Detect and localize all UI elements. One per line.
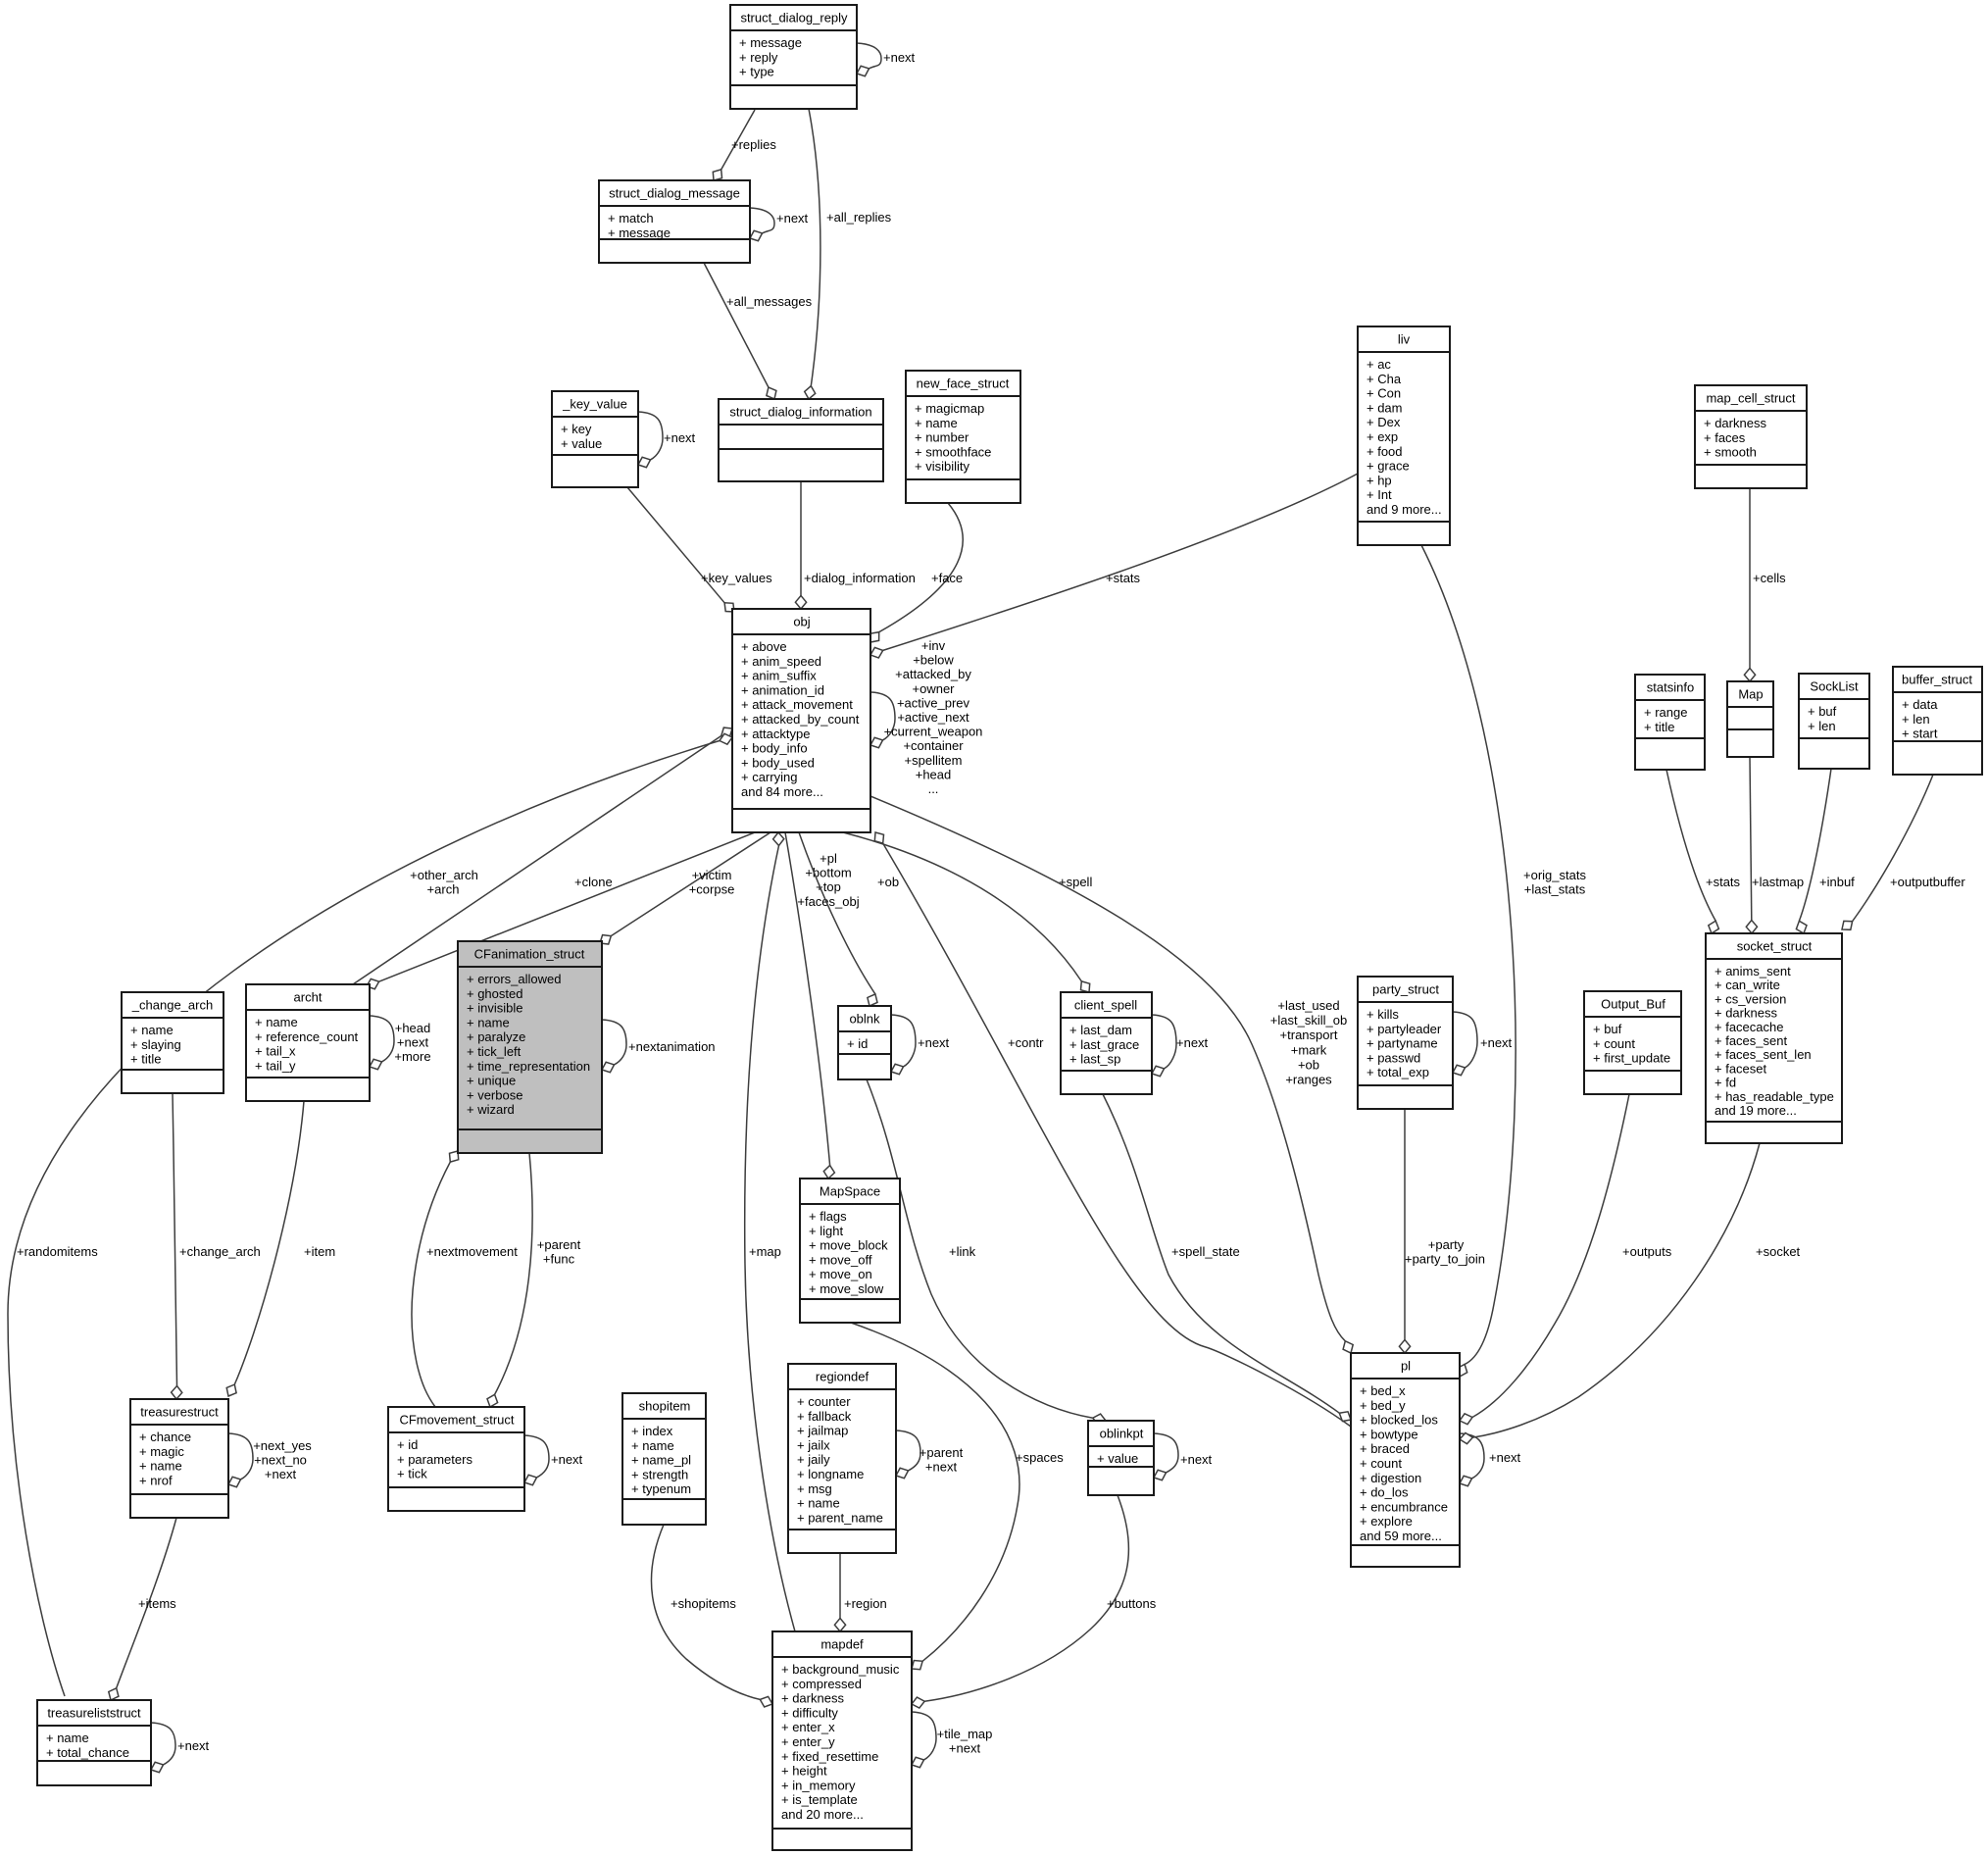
svg-text:+ difficulty: + difficulty bbox=[781, 1705, 838, 1720]
svg-text:+all_messages: +all_messages bbox=[726, 294, 813, 309]
edge socket_struct->pl +socket bbox=[1460, 1143, 1801, 1444]
edge obj->client_spell +spell bbox=[843, 832, 1092, 992]
svg-text:+ darkness: + darkness bbox=[1715, 1006, 1777, 1021]
class Map bbox=[1727, 681, 1773, 757]
svg-text:+ body_info: + body_info bbox=[741, 741, 808, 756]
svg-text:+ range: + range bbox=[1644, 705, 1687, 720]
self-loop party_struct +next bbox=[1453, 1012, 1513, 1076]
svg-text:+corpse: +corpse bbox=[689, 882, 735, 897]
svg-text:+ tail_x: + tail_x bbox=[255, 1044, 296, 1059]
self-loop treasurestruct +next_yes+next_no+next bbox=[228, 1433, 312, 1487]
svg-text:+next: +next bbox=[883, 50, 916, 65]
svg-text:+items: +items bbox=[138, 1596, 176, 1611]
class regiondef bbox=[788, 1364, 896, 1553]
svg-text:+victim: +victim bbox=[692, 868, 732, 882]
svg-text:+contr: +contr bbox=[1008, 1035, 1044, 1050]
svg-text:+ match: + match bbox=[608, 211, 654, 226]
svg-text:+ carrying: + carrying bbox=[741, 770, 797, 784]
svg-text:+ move_slow: + move_slow bbox=[809, 1281, 884, 1296]
svg-text:+head: +head bbox=[916, 767, 952, 781]
svg-text:+ ac: + ac bbox=[1367, 357, 1391, 372]
svg-text:+ counter: + counter bbox=[797, 1394, 851, 1409]
svg-text:+ name: + name bbox=[255, 1015, 298, 1029]
svg-text:+current_weapon: +current_weapon bbox=[884, 725, 983, 739]
svg-text:+randomitems: +randomitems bbox=[17, 1244, 98, 1259]
svg-text:+ move_block: + move_block bbox=[809, 1238, 888, 1253]
svg-text:+outputbuffer: +outputbuffer bbox=[1890, 875, 1965, 889]
svg-text:+ faces_sent: + faces_sent bbox=[1715, 1033, 1787, 1048]
svg-text:+arch: +arch bbox=[427, 882, 460, 897]
svg-text:+next: +next bbox=[918, 1035, 950, 1050]
svg-text:+ grace: + grace bbox=[1367, 459, 1410, 474]
svg-text:+ last_sp: + last_sp bbox=[1069, 1052, 1120, 1067]
svg-text:regiondef: regiondef bbox=[816, 1370, 870, 1384]
svg-text:...: ... bbox=[928, 781, 939, 796]
svg-text:obj: obj bbox=[793, 615, 810, 629]
svg-text:+next: +next bbox=[949, 1741, 981, 1756]
svg-text:+orig_stats: +orig_stats bbox=[1523, 868, 1586, 882]
svg-text:and 9 more...: and 9 more... bbox=[1367, 502, 1442, 517]
svg-text:+ above: + above bbox=[741, 639, 787, 654]
svg-text:SockList: SockList bbox=[1810, 679, 1859, 694]
svg-text:+ buf: + buf bbox=[1593, 1022, 1622, 1036]
svg-text:+ can_write: + can_write bbox=[1715, 978, 1780, 992]
svg-text:+stats: +stats bbox=[1106, 571, 1141, 585]
self-loop archt +head+next+more bbox=[370, 1016, 431, 1070]
svg-text:+stats: +stats bbox=[1706, 875, 1741, 889]
svg-text:+ parent_name: + parent_name bbox=[797, 1510, 883, 1525]
edge party_struct->pl +party +party_to_join bbox=[1399, 1109, 1485, 1353]
svg-text:MapSpace: MapSpace bbox=[820, 1184, 880, 1199]
svg-text:+ dam: + dam bbox=[1367, 400, 1403, 415]
class map_cell_struct bbox=[1695, 385, 1807, 488]
svg-text:+spellitem: +spellitem bbox=[905, 753, 963, 768]
svg-text:+mark: +mark bbox=[1291, 1042, 1327, 1057]
svg-text:party_struct: party_struct bbox=[1372, 982, 1439, 997]
svg-text:+pl: +pl bbox=[820, 851, 837, 866]
svg-text:+ magic: + magic bbox=[139, 1444, 184, 1459]
edge obj->pl +last_used +last_skill_ob +transport +mark +ob +ranges bbox=[870, 796, 1353, 1353]
class shopitem bbox=[622, 1393, 706, 1525]
svg-text:+ total_chance: + total_chance bbox=[46, 1745, 129, 1760]
svg-text:Map: Map bbox=[1738, 687, 1763, 702]
class struct_dialog_information bbox=[719, 399, 883, 481]
svg-text:+ jailmap: + jailmap bbox=[797, 1424, 848, 1438]
svg-text:+other_arch: +other_arch bbox=[410, 868, 478, 882]
svg-text:+ explore: + explore bbox=[1360, 1514, 1413, 1529]
svg-text:+party: +party bbox=[1428, 1237, 1465, 1252]
svg-text:+ name: + name bbox=[915, 416, 958, 430]
self-loop CFanimation_struct +nextanimation bbox=[602, 1020, 716, 1073]
class obj bbox=[732, 609, 870, 832]
svg-text:+ anims_sent: + anims_sent bbox=[1715, 964, 1791, 978]
svg-text:+ has_readable_type: + has_readable_type bbox=[1715, 1089, 1834, 1104]
svg-text:+ bed_x: + bed_x bbox=[1360, 1383, 1406, 1398]
edge oblnk->oblinkpt +link bbox=[867, 1079, 1106, 1425]
svg-text:+func: +func bbox=[543, 1252, 575, 1267]
svg-text:+key_values: +key_values bbox=[701, 571, 772, 585]
svg-text:+ encumbrance: + encumbrance bbox=[1360, 1499, 1448, 1514]
svg-text:+ nrof: + nrof bbox=[139, 1473, 173, 1487]
svg-text:+active_next: +active_next bbox=[897, 710, 969, 725]
self-loop oblnk +next bbox=[891, 1015, 950, 1075]
svg-text:CFanimation_struct: CFanimation_struct bbox=[474, 947, 585, 962]
svg-text:+ data: + data bbox=[1902, 697, 1938, 712]
svg-text:+map: +map bbox=[749, 1244, 781, 1259]
svg-text:+change_arch: +change_arch bbox=[179, 1244, 261, 1259]
svg-text:+last_stats: +last_stats bbox=[1524, 882, 1586, 897]
svg-text:+ob: +ob bbox=[877, 875, 899, 889]
class _change_arch bbox=[122, 992, 224, 1093]
svg-text:+ title: + title bbox=[130, 1052, 161, 1067]
svg-text:+ paralyze: + paralyze bbox=[467, 1029, 525, 1044]
edge Output_Buf->pl +outputs bbox=[1460, 1094, 1672, 1425]
svg-text:+next: +next bbox=[925, 1460, 958, 1475]
svg-text:+ do_los: + do_los bbox=[1360, 1485, 1409, 1500]
svg-text:+ unique: + unique bbox=[467, 1074, 516, 1088]
svg-text:buffer_struct: buffer_struct bbox=[1902, 673, 1972, 687]
class buffer_struct bbox=[1893, 667, 1982, 775]
class liv bbox=[1358, 326, 1450, 545]
svg-text:+ food: + food bbox=[1367, 444, 1403, 459]
svg-text:+ time_representation: + time_representation bbox=[467, 1059, 590, 1074]
self-loop struct_dialog_message +next bbox=[750, 208, 809, 241]
svg-text:+ count: + count bbox=[1360, 1456, 1402, 1471]
svg-text:+ jailx: + jailx bbox=[797, 1437, 830, 1452]
svg-text:+spell_state: +spell_state bbox=[1171, 1244, 1240, 1259]
svg-text:+head: +head bbox=[395, 1021, 431, 1035]
self-loop oblinkpt +next bbox=[1154, 1433, 1213, 1480]
svg-text:+outputs: +outputs bbox=[1622, 1244, 1672, 1259]
svg-text:+ wizard: + wizard bbox=[467, 1102, 515, 1117]
edge archt->treasurestruct +item bbox=[226, 1101, 335, 1396]
self-loop client_spell +next bbox=[1152, 1015, 1209, 1077]
svg-text:+ Con: + Con bbox=[1367, 386, 1401, 401]
svg-text:+ enter_x: + enter_x bbox=[781, 1720, 835, 1734]
svg-text:+below: +below bbox=[913, 653, 954, 668]
svg-text:+dialog_information: +dialog_information bbox=[804, 571, 916, 585]
class SockList bbox=[1799, 674, 1869, 769]
svg-text:+next: +next bbox=[265, 1467, 297, 1481]
svg-text:+ light: + light bbox=[809, 1224, 843, 1238]
svg-text:+ faceset: + faceset bbox=[1715, 1061, 1767, 1076]
svg-text:+last_used: +last_used bbox=[1277, 998, 1339, 1013]
svg-text:+ key: + key bbox=[561, 422, 592, 436]
svg-text:+buttons: +buttons bbox=[1107, 1596, 1157, 1611]
svg-text:+ message: + message bbox=[608, 226, 671, 240]
svg-text:+ height: + height bbox=[781, 1764, 827, 1779]
class MapSpace bbox=[800, 1179, 900, 1323]
svg-text:+owner: +owner bbox=[913, 681, 956, 696]
svg-text:+face: +face bbox=[931, 571, 963, 585]
svg-text:+ buf: + buf bbox=[1808, 704, 1837, 719]
svg-text:+ in_memory: + in_memory bbox=[781, 1778, 856, 1792]
svg-text:+ digestion: + digestion bbox=[1360, 1471, 1421, 1485]
svg-text:+last_skill_ob: +last_skill_ob bbox=[1270, 1013, 1347, 1028]
self-loop mapdef +tile_map+next bbox=[912, 1712, 992, 1768]
svg-text:+cells: +cells bbox=[1753, 571, 1786, 585]
svg-text:+ darkness: + darkness bbox=[781, 1691, 844, 1706]
svg-text:+ typenum: + typenum bbox=[631, 1481, 691, 1496]
edge new_face_struct->obj +face bbox=[870, 503, 963, 642]
svg-text:+spell: +spell bbox=[1059, 875, 1092, 889]
edge MapSpace->mapdef +spaces bbox=[851, 1323, 1064, 1670]
class struct_dialog_message bbox=[599, 180, 750, 263]
class party_struct bbox=[1358, 977, 1453, 1109]
svg-text:+ message: + message bbox=[739, 35, 802, 50]
svg-text:+ anim_suffix: + anim_suffix bbox=[741, 669, 817, 683]
svg-text:+next: +next bbox=[551, 1452, 583, 1467]
svg-text:socket_struct: socket_struct bbox=[1737, 939, 1813, 954]
svg-text:+ type: + type bbox=[739, 65, 774, 79]
edge _change_arch->treasurestruct +change_arch bbox=[172, 1093, 261, 1399]
svg-text:+ is_template: + is_template bbox=[781, 1792, 858, 1807]
svg-text:+next: +next bbox=[776, 211, 809, 226]
svg-text:+clone: +clone bbox=[574, 875, 613, 889]
self-loop struct_dialog_reply +next bbox=[857, 43, 916, 76]
svg-text:+container: +container bbox=[903, 738, 964, 753]
svg-text:+ visibility: + visibility bbox=[915, 459, 969, 474]
svg-text:+ invisible: + invisible bbox=[467, 1001, 522, 1016]
svg-text:+ attacktype: + attacktype bbox=[741, 727, 810, 741]
svg-text:+ longname: + longname bbox=[797, 1467, 864, 1481]
class _key_value bbox=[552, 391, 638, 487]
svg-text:+ index: + index bbox=[631, 1424, 673, 1438]
svg-text:+ title: + title bbox=[1644, 720, 1674, 734]
svg-text:struct_dialog_reply: struct_dialog_reply bbox=[740, 11, 848, 25]
svg-text:liv: liv bbox=[1398, 332, 1411, 347]
class oblnk bbox=[838, 1006, 891, 1079]
svg-text:+ faces_sent_len: + faces_sent_len bbox=[1715, 1047, 1812, 1062]
class socket_struct bbox=[1706, 933, 1842, 1143]
edge map_cell_struct->Map +cells bbox=[1744, 488, 1786, 681]
svg-text:_key_value: _key_value bbox=[562, 397, 627, 412]
svg-text:+socket: +socket bbox=[1756, 1244, 1801, 1259]
svg-text:+ count: + count bbox=[1593, 1036, 1635, 1051]
svg-text:+ move_off: + move_off bbox=[809, 1252, 872, 1267]
svg-text:and 19 more...: and 19 more... bbox=[1715, 1103, 1797, 1118]
svg-text:+ name: + name bbox=[467, 1015, 510, 1029]
class pl bbox=[1351, 1353, 1460, 1567]
svg-text:+ name: + name bbox=[797, 1496, 840, 1511]
svg-text:+ faces: + faces bbox=[1704, 430, 1746, 445]
self-loop treasureliststruct +next bbox=[151, 1723, 210, 1773]
edge CFanimation_struct->CFmovement_struct +parent +func bbox=[487, 1153, 581, 1407]
svg-text:+lastmap: +lastmap bbox=[1752, 875, 1804, 889]
edge liv->obj +stats bbox=[870, 474, 1358, 658]
edge pl->obj +contr bbox=[874, 832, 1351, 1427]
svg-text:+ verbose: + verbose bbox=[467, 1087, 522, 1102]
svg-text:+ partyname: + partyname bbox=[1367, 1036, 1438, 1051]
class CFanimation_struct bbox=[458, 941, 602, 1153]
svg-text:+ len: + len bbox=[1902, 712, 1930, 727]
svg-text:+ compressed: + compressed bbox=[781, 1677, 862, 1691]
svg-text:+next_no: +next_no bbox=[254, 1453, 307, 1468]
edge buffer_struct->socket_struct +outputbuffer bbox=[1842, 775, 1965, 929]
svg-text:+ parameters: + parameters bbox=[397, 1452, 472, 1467]
class oblinkpt bbox=[1088, 1421, 1154, 1495]
edge Map->socket_struct +lastmap bbox=[1746, 757, 1804, 933]
svg-text:+ errors_allowed: + errors_allowed bbox=[467, 972, 561, 986]
svg-text:+ Dex: + Dex bbox=[1367, 415, 1401, 429]
svg-text:shopitem: shopitem bbox=[639, 1399, 691, 1414]
svg-text:+ last_dam: + last_dam bbox=[1069, 1023, 1132, 1037]
svg-text:+ chance: + chance bbox=[139, 1430, 191, 1444]
class struct_dialog_reply bbox=[730, 5, 857, 109]
svg-text:+ smoothface: + smoothface bbox=[915, 444, 991, 459]
edge struct_dialog_information->obj +dialog_information bbox=[795, 481, 915, 609]
edge obj->CFanimation_struct +victim +corpse bbox=[600, 832, 770, 944]
svg-text:+next: +next bbox=[1489, 1450, 1521, 1465]
svg-text:+attacked_by: +attacked_by bbox=[895, 667, 971, 681]
svg-text:client_spell: client_spell bbox=[1074, 998, 1137, 1013]
svg-text:+ id: + id bbox=[847, 1036, 868, 1051]
svg-text:and 59 more...: and 59 more... bbox=[1360, 1529, 1442, 1543]
svg-text:+ fixed_resettime: + fixed_resettime bbox=[781, 1749, 878, 1764]
svg-text:treasurestruct: treasurestruct bbox=[140, 1405, 219, 1420]
svg-text:+more: +more bbox=[394, 1049, 430, 1064]
edge CFanimation_struct->CFmovement_struct +nextmovement bbox=[412, 1151, 518, 1407]
edge obj->archt +other_arch +arch bbox=[353, 727, 732, 984]
svg-text:+ blocked_los: + blocked_los bbox=[1360, 1413, 1438, 1428]
svg-text:+ ghosted: + ghosted bbox=[467, 986, 522, 1001]
svg-text:+ cs_version: + cs_version bbox=[1715, 991, 1786, 1006]
svg-text:+ranges: +ranges bbox=[1285, 1073, 1332, 1087]
svg-text:+ total_exp: + total_exp bbox=[1367, 1065, 1429, 1079]
svg-text:+ first_update: + first_update bbox=[1593, 1051, 1670, 1066]
svg-text:+ passwd: + passwd bbox=[1367, 1050, 1420, 1065]
svg-text:+next_yes: +next_yes bbox=[253, 1438, 312, 1453]
svg-text:+ kills: + kills bbox=[1367, 1007, 1399, 1022]
svg-text:+ Cha: + Cha bbox=[1367, 372, 1402, 386]
svg-text:+region: +region bbox=[844, 1596, 887, 1611]
svg-text:+inbuf: +inbuf bbox=[1819, 875, 1855, 889]
svg-text:+shopitems: +shopitems bbox=[671, 1596, 736, 1611]
svg-text:+ exp: + exp bbox=[1367, 429, 1398, 444]
svg-text:+ name: + name bbox=[46, 1731, 89, 1745]
svg-text:struct_dialog_information: struct_dialog_information bbox=[729, 405, 871, 420]
svg-text:+ fallback: + fallback bbox=[797, 1409, 852, 1424]
edge regiondef->mapdef +region bbox=[834, 1553, 886, 1631]
svg-text:+next: +next bbox=[177, 1738, 210, 1753]
self-loop _key_value +next bbox=[638, 412, 696, 468]
svg-text:map_cell_struct: map_cell_struct bbox=[1706, 391, 1795, 406]
svg-text:+ value: + value bbox=[1097, 1451, 1138, 1466]
svg-text:+spaces: +spaces bbox=[1016, 1450, 1064, 1465]
svg-text:+ tick_left: + tick_left bbox=[467, 1044, 522, 1059]
edge struct_dialog_reply->struct_dialog_information +all_replies bbox=[805, 109, 892, 399]
svg-text:+ attacked_by_count: + attacked_by_count bbox=[741, 712, 860, 727]
svg-text:+ last_grace: + last_grace bbox=[1069, 1037, 1139, 1052]
svg-text:_change_arch: _change_arch bbox=[131, 998, 213, 1013]
svg-text:+ name: + name bbox=[631, 1438, 674, 1453]
svg-text:+ darkness: + darkness bbox=[1704, 416, 1766, 430]
svg-text:+nextmovement: +nextmovement bbox=[426, 1244, 518, 1259]
svg-text:+ name: + name bbox=[130, 1023, 174, 1037]
svg-text:archt: archt bbox=[294, 990, 323, 1005]
svg-text:Output_Buf: Output_Buf bbox=[1601, 997, 1665, 1012]
svg-text:+ magicmap: + magicmap bbox=[915, 401, 984, 416]
svg-text:CFmovement_struct: CFmovement_struct bbox=[399, 1413, 514, 1428]
svg-text:+replies: +replies bbox=[731, 137, 776, 152]
svg-text:+ attack_movement: + attack_movement bbox=[741, 697, 853, 712]
svg-text:+ name_pl: + name_pl bbox=[631, 1453, 691, 1468]
edge obj->archt +clone bbox=[367, 832, 755, 989]
svg-text:+parent: +parent bbox=[919, 1445, 964, 1460]
svg-text:+ number: + number bbox=[915, 430, 969, 445]
class mapdef bbox=[772, 1631, 912, 1850]
svg-text:+ partyleader: + partyleader bbox=[1367, 1022, 1442, 1036]
edge treasurestruct->treasureliststruct +items bbox=[109, 1518, 176, 1700]
edge struct_dialog_reply->struct_dialog_message +replies bbox=[713, 110, 776, 180]
svg-text:+ bed_y: + bed_y bbox=[1360, 1398, 1406, 1413]
svg-text:+ Int: + Int bbox=[1367, 487, 1392, 502]
edge struct_dialog_message->struct_dialog_information +all_messages bbox=[704, 263, 813, 399]
svg-text:+ reply: + reply bbox=[739, 50, 778, 65]
svg-text:+ body_used: + body_used bbox=[741, 755, 815, 770]
edge treasureliststruct->obj +randomitems bbox=[8, 733, 732, 1696]
svg-text:oblnk: oblnk bbox=[849, 1012, 880, 1027]
svg-text:+ enter_y: + enter_y bbox=[781, 1734, 835, 1749]
svg-text:pl: pl bbox=[1401, 1359, 1411, 1374]
svg-text:+ value: + value bbox=[561, 436, 602, 451]
self-loop regiondef +parent+next bbox=[896, 1430, 964, 1479]
svg-text:statsinfo: statsinfo bbox=[1647, 680, 1694, 695]
svg-text:+ strength: + strength bbox=[631, 1467, 688, 1481]
svg-text:+ smooth: + smooth bbox=[1704, 445, 1757, 460]
svg-text:+ reference_count: + reference_count bbox=[255, 1029, 359, 1044]
edge client_spell->pl +spell_state bbox=[1103, 1094, 1351, 1422]
class archt bbox=[246, 984, 370, 1101]
edge obj->mapdef +map bbox=[745, 832, 795, 1631]
svg-text:+next: +next bbox=[1480, 1035, 1513, 1050]
svg-text:+ facecache: + facecache bbox=[1715, 1020, 1783, 1034]
svg-text:+link: +link bbox=[949, 1244, 976, 1259]
class client_spell bbox=[1061, 992, 1152, 1094]
svg-text:+ name: + name bbox=[139, 1459, 182, 1474]
svg-text:+parent: +parent bbox=[537, 1237, 581, 1252]
edge oblinkpt->mapdef +buttons bbox=[912, 1495, 1157, 1708]
svg-text:and 84 more...: and 84 more... bbox=[741, 784, 823, 799]
svg-text:+ tick: + tick bbox=[397, 1467, 427, 1481]
self-loop obj +inv+below+attacked_by+owner+active_prev+active_next+current_weapon+container+spellitem+head bbox=[870, 638, 982, 796]
svg-text:+ id: + id bbox=[397, 1437, 418, 1452]
class treasureliststruct bbox=[37, 1700, 151, 1785]
svg-text:treasureliststruct: treasureliststruct bbox=[47, 1706, 141, 1721]
svg-text:+ start: + start bbox=[1902, 727, 1938, 741]
svg-text:+ move_on: + move_on bbox=[809, 1267, 872, 1281]
svg-text:+ bowtype: + bowtype bbox=[1360, 1427, 1418, 1441]
svg-text:and 20 more...: and 20 more... bbox=[781, 1807, 864, 1822]
svg-text:+ braced: + braced bbox=[1360, 1441, 1410, 1456]
svg-text:+ msg: + msg bbox=[797, 1481, 832, 1496]
svg-text:+item: +item bbox=[304, 1244, 335, 1259]
svg-text:+next: +next bbox=[1176, 1035, 1209, 1050]
svg-text:struct_dialog_message: struct_dialog_message bbox=[609, 186, 740, 201]
svg-text:+next: +next bbox=[1180, 1452, 1213, 1467]
svg-text:+ len: + len bbox=[1808, 719, 1836, 733]
edge statsinfo->socket_struct +stats bbox=[1666, 770, 1741, 933]
svg-text:+ob: +ob bbox=[1298, 1057, 1319, 1072]
self-loop pl +next bbox=[1460, 1433, 1521, 1486]
svg-text:mapdef: mapdef bbox=[820, 1637, 864, 1652]
svg-text:+ tail_y: + tail_y bbox=[255, 1058, 296, 1073]
svg-text:+ anim_speed: + anim_speed bbox=[741, 654, 821, 669]
svg-text:oblinkpt: oblinkpt bbox=[1100, 1427, 1144, 1441]
svg-text:+next: +next bbox=[664, 430, 696, 445]
svg-text:+ background_music: + background_music bbox=[781, 1662, 900, 1677]
svg-text:+ flags: + flags bbox=[809, 1209, 847, 1224]
